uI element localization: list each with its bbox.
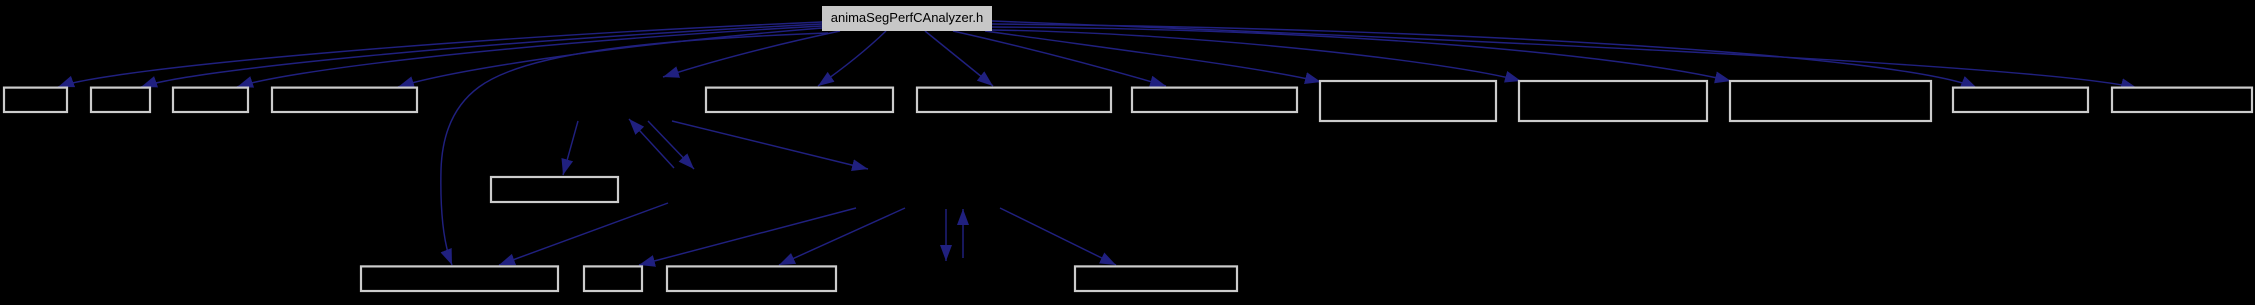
node b9 xyxy=(1519,81,1707,121)
node b1 xyxy=(4,88,67,112)
wire N2->bA xyxy=(499,203,668,265)
wire T->N1 xyxy=(663,31,840,77)
node b10 xyxy=(1730,81,1931,121)
wire N3->bB xyxy=(639,208,856,265)
wire N2->N1 xyxy=(629,119,674,168)
node b8 xyxy=(1320,81,1496,121)
node b3 xyxy=(173,88,248,112)
svg-text:animaSegPerfCAnalyzer.h: animaSegPerfCAnalyzer.h xyxy=(831,10,983,25)
wire T->b1 xyxy=(58,22,822,87)
wire N3->bC xyxy=(779,208,905,265)
wire N3->N4 down xyxy=(945,209,947,261)
wire N3->bD xyxy=(1000,208,1116,265)
wire T->b10 xyxy=(992,27,1731,81)
node b11 xyxy=(1953,88,2088,112)
wire T->b4 xyxy=(398,28,822,87)
wire N1->N3 xyxy=(672,121,868,169)
wire T->b6 xyxy=(925,31,993,86)
node b7 xyxy=(1132,88,1297,112)
wire T->b5 xyxy=(818,31,886,86)
wire T->b9 xyxy=(992,30,1521,81)
wire T->bA long curve xyxy=(441,33,828,265)
node b2 xyxy=(91,88,150,112)
node T animaSegPerfCAnalyzer.h xyxy=(822,6,992,31)
wire T->b2 xyxy=(141,24,822,87)
wire N1->r1 xyxy=(563,121,578,175)
wire T->b12 xyxy=(992,21,2137,88)
node bB xyxy=(584,266,642,291)
node b5 xyxy=(706,88,893,112)
node b12 xyxy=(2112,88,2252,112)
wire T->b11 xyxy=(992,24,1977,88)
node b6 xyxy=(917,88,1111,112)
node r1 xyxy=(491,177,618,202)
wire N1->N2 xyxy=(648,121,694,169)
wire T->b8 xyxy=(985,31,1321,82)
wire T->b3 xyxy=(237,26,822,87)
node b4 xyxy=(272,88,417,112)
node bA xyxy=(361,266,558,291)
wire T->b7 xyxy=(953,31,1166,86)
wire N4->N3 up xyxy=(962,209,964,258)
node bD xyxy=(1075,266,1237,291)
node bC xyxy=(667,266,836,291)
